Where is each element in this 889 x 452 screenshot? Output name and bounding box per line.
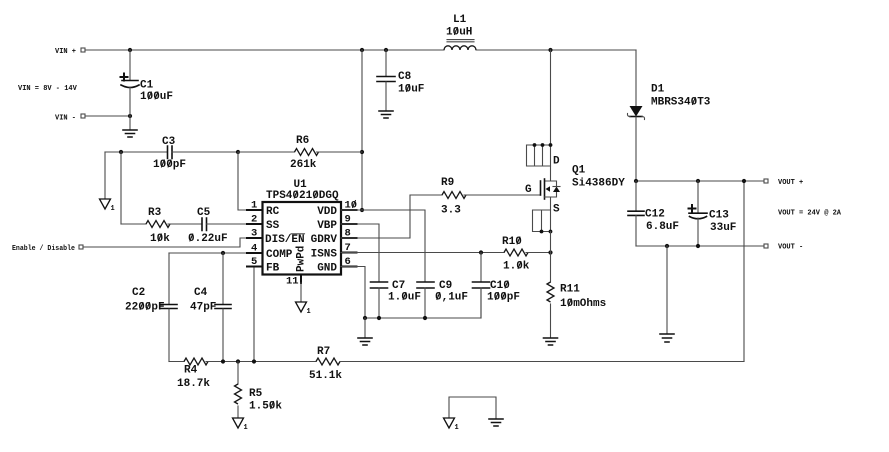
capacitor C7 [371,280,422,318]
svg-text:L1: L1 [453,14,467,26]
resistor R6 [238,135,362,171]
wire RC pin riser [238,152,263,210]
resistor R11 [547,253,606,339]
wire VOUT- rail [636,245,764,247]
port VOUT- [764,244,803,252]
wire Q1 drain branch [550,50,552,145]
svg-text:R5: R5 [249,388,263,400]
svg-text:1: 1 [244,424,248,432]
svg-text:C5: C5 [197,207,211,219]
svg-text:10mOhms: 10mOhms [560,298,606,310]
svg-text:D1: D1 [651,84,665,96]
capacitor C10 [473,253,521,319]
svg-text:100uF: 100uF [140,91,173,103]
svg-text:VIN = 8V - 14V: VIN = 8V - 14V [18,85,78,93]
svg-text:DIS/EN: DIS/EN [265,234,305,246]
svg-text:Si4386DY: Si4386DY [572,178,625,190]
svg-text:Enable / Disable: Enable / Disable [12,245,75,253]
wire R10 to source node [526,252,551,254]
node C1 top [128,48,132,52]
pin 11 PwPd [286,246,308,302]
wire ISNS net [341,252,504,254]
svg-text:3: 3 [251,228,257,240]
wire FB pin riser [254,267,263,362]
resistor R3 [146,207,170,245]
wire FB net middle [206,361,316,363]
resistor R5 [235,362,283,419]
wire SS net [121,223,146,225]
svg-text:18.7k: 18.7k [177,378,210,390]
svg-text:C7: C7 [392,280,405,292]
pin 5 FB [247,256,280,275]
capacitor C5 [188,207,228,245]
ground below C8 [379,111,393,118]
pin 2 SS [247,214,280,233]
ground below bypass rail [358,318,372,345]
svg-text:C3: C3 [162,136,176,148]
diode D1 [627,84,710,182]
node Q1 drain branch [548,48,552,52]
svg-text:4: 4 [251,243,257,255]
node C1 bottom [128,114,132,118]
wire ground tie [449,397,496,419]
pin 1 RC [247,200,280,219]
transistor Q1 source pin block [533,210,553,233]
svg-text:C1: C1 [140,80,154,92]
capacitor C8 [377,50,424,111]
svg-text:2200pF: 2200pF [125,302,165,314]
svg-text:Q1: Q1 [572,165,586,177]
ground below R11 [544,338,558,345]
port VIN+ [55,48,85,56]
port VIN- [55,114,85,123]
svg-text:VIN -: VIN - [55,115,76,123]
node VDD pin / riser [360,208,364,212]
pin 9 VBP [317,214,356,233]
wire C3 net left segment [105,151,167,153]
svg-text:C9: C9 [439,280,452,292]
node VDD riser top [360,48,364,52]
svg-text:R10: R10 [502,236,522,248]
svg-text:VOUT +: VOUT + [778,179,803,187]
resistor R9 [441,177,466,217]
wire FB net left [169,361,184,363]
node C10 top [479,250,483,254]
svg-text:GND: GND [317,263,337,275]
svg-text:C4: C4 [194,287,208,299]
wire VBP net to C7 [341,224,379,282]
pin 3 DIS/EN [247,228,305,247]
node rail/stem [363,316,367,320]
wire enable net [83,238,263,247]
resistor R10 [502,236,530,273]
svg-text:6.8uF: 6.8uF [646,221,679,233]
pin 7 ISNS [311,242,357,261]
svg-text:R3: R3 [148,207,162,219]
svg-text:1.0uF: 1.0uF [388,292,421,304]
svg-text:1.0k: 1.0k [503,261,530,273]
svg-text:R11: R11 [560,284,580,296]
svg-text:MBRS340T3: MBRS340T3 [651,97,711,109]
svg-text:R6: R6 [296,135,309,147]
node C4 bottom [221,359,225,363]
svg-text:RC: RC [266,206,280,218]
svg-text:R7: R7 [317,346,330,358]
svg-text:0.22uF: 0.22uF [188,233,228,245]
wire bypass ground rail [365,288,481,318]
svg-text:C10: C10 [490,280,510,292]
ground triangle 1 (left) [100,199,115,213]
svg-text:R9: R9 [441,177,454,189]
svg-text:TPS40210DGQ: TPS40210DGQ [266,190,339,202]
svg-text:1: 1 [307,308,311,316]
wire C5 to SS pin [207,223,263,225]
svg-text:VOUT -: VOUT - [778,244,803,252]
svg-text:1.50k: 1.50k [249,401,282,413]
svg-text:C13: C13 [709,210,729,222]
svg-text:11: 11 [286,276,299,288]
node C3 left branch [119,150,123,154]
wire COMP net [169,252,263,254]
svg-text:100pF: 100pF [487,292,520,304]
pin 10 VDD [317,200,357,219]
svg-text:47pF: 47pF [190,302,216,314]
wire VOUT+ rail [636,180,764,182]
node C7 bottom [377,316,381,320]
svg-text:1: 1 [111,205,115,213]
node C8 top [384,48,388,52]
svg-text:1: 1 [455,424,459,432]
svg-text:ISNS: ISNS [311,249,338,261]
slashed zero strokes (font detail) [140,27,696,409]
svg-text:2: 2 [251,214,257,226]
svg-text:100pF: 100pF [153,159,186,171]
capacitor C2 [125,253,177,362]
ground below output [660,334,674,342]
svg-text:D: D [553,156,560,168]
resistor R7 [309,346,342,382]
svg-text:COMP: COMP [266,249,293,261]
svg-text:SS: SS [266,220,280,232]
svg-text:3.3: 3.3 [441,205,461,217]
node VOUT- ground stem [665,244,669,248]
ground earth (tie right) [489,419,503,426]
ground triangle 1 (tie left) [444,418,459,432]
svg-text:5: 5 [251,256,257,268]
svg-text:0,1uF: 0,1uF [435,292,468,304]
transistor Q1 drain pin block [527,143,561,167]
svg-text:10k: 10k [150,233,170,245]
wire output ground stem [666,246,668,334]
svg-text:VIN +: VIN + [55,48,76,56]
wire source to R10 node [550,232,552,253]
capacitor C3 [153,136,186,171]
capacitor C13 [689,181,737,246]
svg-text:10uH: 10uH [446,27,472,39]
svg-text:1: 1 [251,200,257,212]
node C13 top [696,179,700,183]
wire R3 to C5 [168,223,202,225]
wire GND pin to ground rail [341,267,365,319]
wire R9 to gate [464,194,541,196]
node R6 right / riser [360,150,364,154]
capacitor C12 [628,181,679,246]
ground triangle 1 below U1 [296,302,311,316]
svg-text:GDRV: GDRV [311,234,338,246]
wire SS riser [120,152,122,224]
wire VIN+ rail right of L1 [476,49,636,51]
pin 6 GND [317,256,356,275]
port Enable/Disable [12,245,83,253]
node source/R11 junction [548,250,552,254]
svg-text:C2: C2 [132,287,145,299]
svg-text:C12: C12 [645,209,665,221]
svg-text:S: S [553,204,560,216]
pin 8 GDRV [311,228,357,247]
ground triangle 1 below R5 [233,418,248,432]
node C4 top [221,251,225,255]
wire to ground triangle [104,152,106,199]
node R5 top [236,359,240,363]
node C9 bottom [423,316,427,320]
ground below C1 [123,116,137,137]
svg-text:VBP: VBP [317,220,337,232]
capacitor C9 [417,280,468,318]
svg-text:33uF: 33uF [710,222,736,234]
resistor R4 [177,358,210,390]
wire GDRV net [341,195,442,238]
node FB riser bottom [252,359,256,363]
node C3/R6/RC junction [236,150,240,154]
svg-text:G: G [525,184,532,196]
wire feedback riser to VOUT+ [743,181,745,362]
wire VIN+ rail left of L1 [85,49,444,51]
svg-text:PwPd: PwPd [296,246,308,272]
wire feedback bottom rail [340,361,744,363]
svg-text:10uF: 10uF [398,84,424,96]
pin 4 COMP [247,243,293,262]
wire VDD riser [361,50,363,210]
transistor Q1 MOSFET [525,165,625,216]
wire VDD net to C9 [341,210,425,282]
node feedback riser top [742,179,746,183]
node C12 top [634,179,638,183]
capacitor C1 [121,50,174,116]
IC U1 TPS40210DGQ body [263,179,342,275]
svg-text:FB: FB [266,263,280,275]
wire top rail corner to D1 [635,50,637,106]
svg-text:VDD: VDD [317,206,337,218]
svg-text:261k: 261k [290,159,317,171]
inductor L1 [444,14,476,50]
svg-text:C8: C8 [398,71,412,83]
svg-text:VOUT = 24V @ 2A: VOUT = 24V @ 2A [778,210,842,218]
capacitor C4 [190,253,231,362]
wire C3 to RC/R6 junction [172,151,238,153]
wire VIN- to C1 [85,115,130,117]
port VOUT+ [764,179,803,187]
svg-text:R4: R4 [184,365,198,377]
node C13 bottom [696,244,700,248]
svg-text:51.1k: 51.1k [309,370,342,382]
